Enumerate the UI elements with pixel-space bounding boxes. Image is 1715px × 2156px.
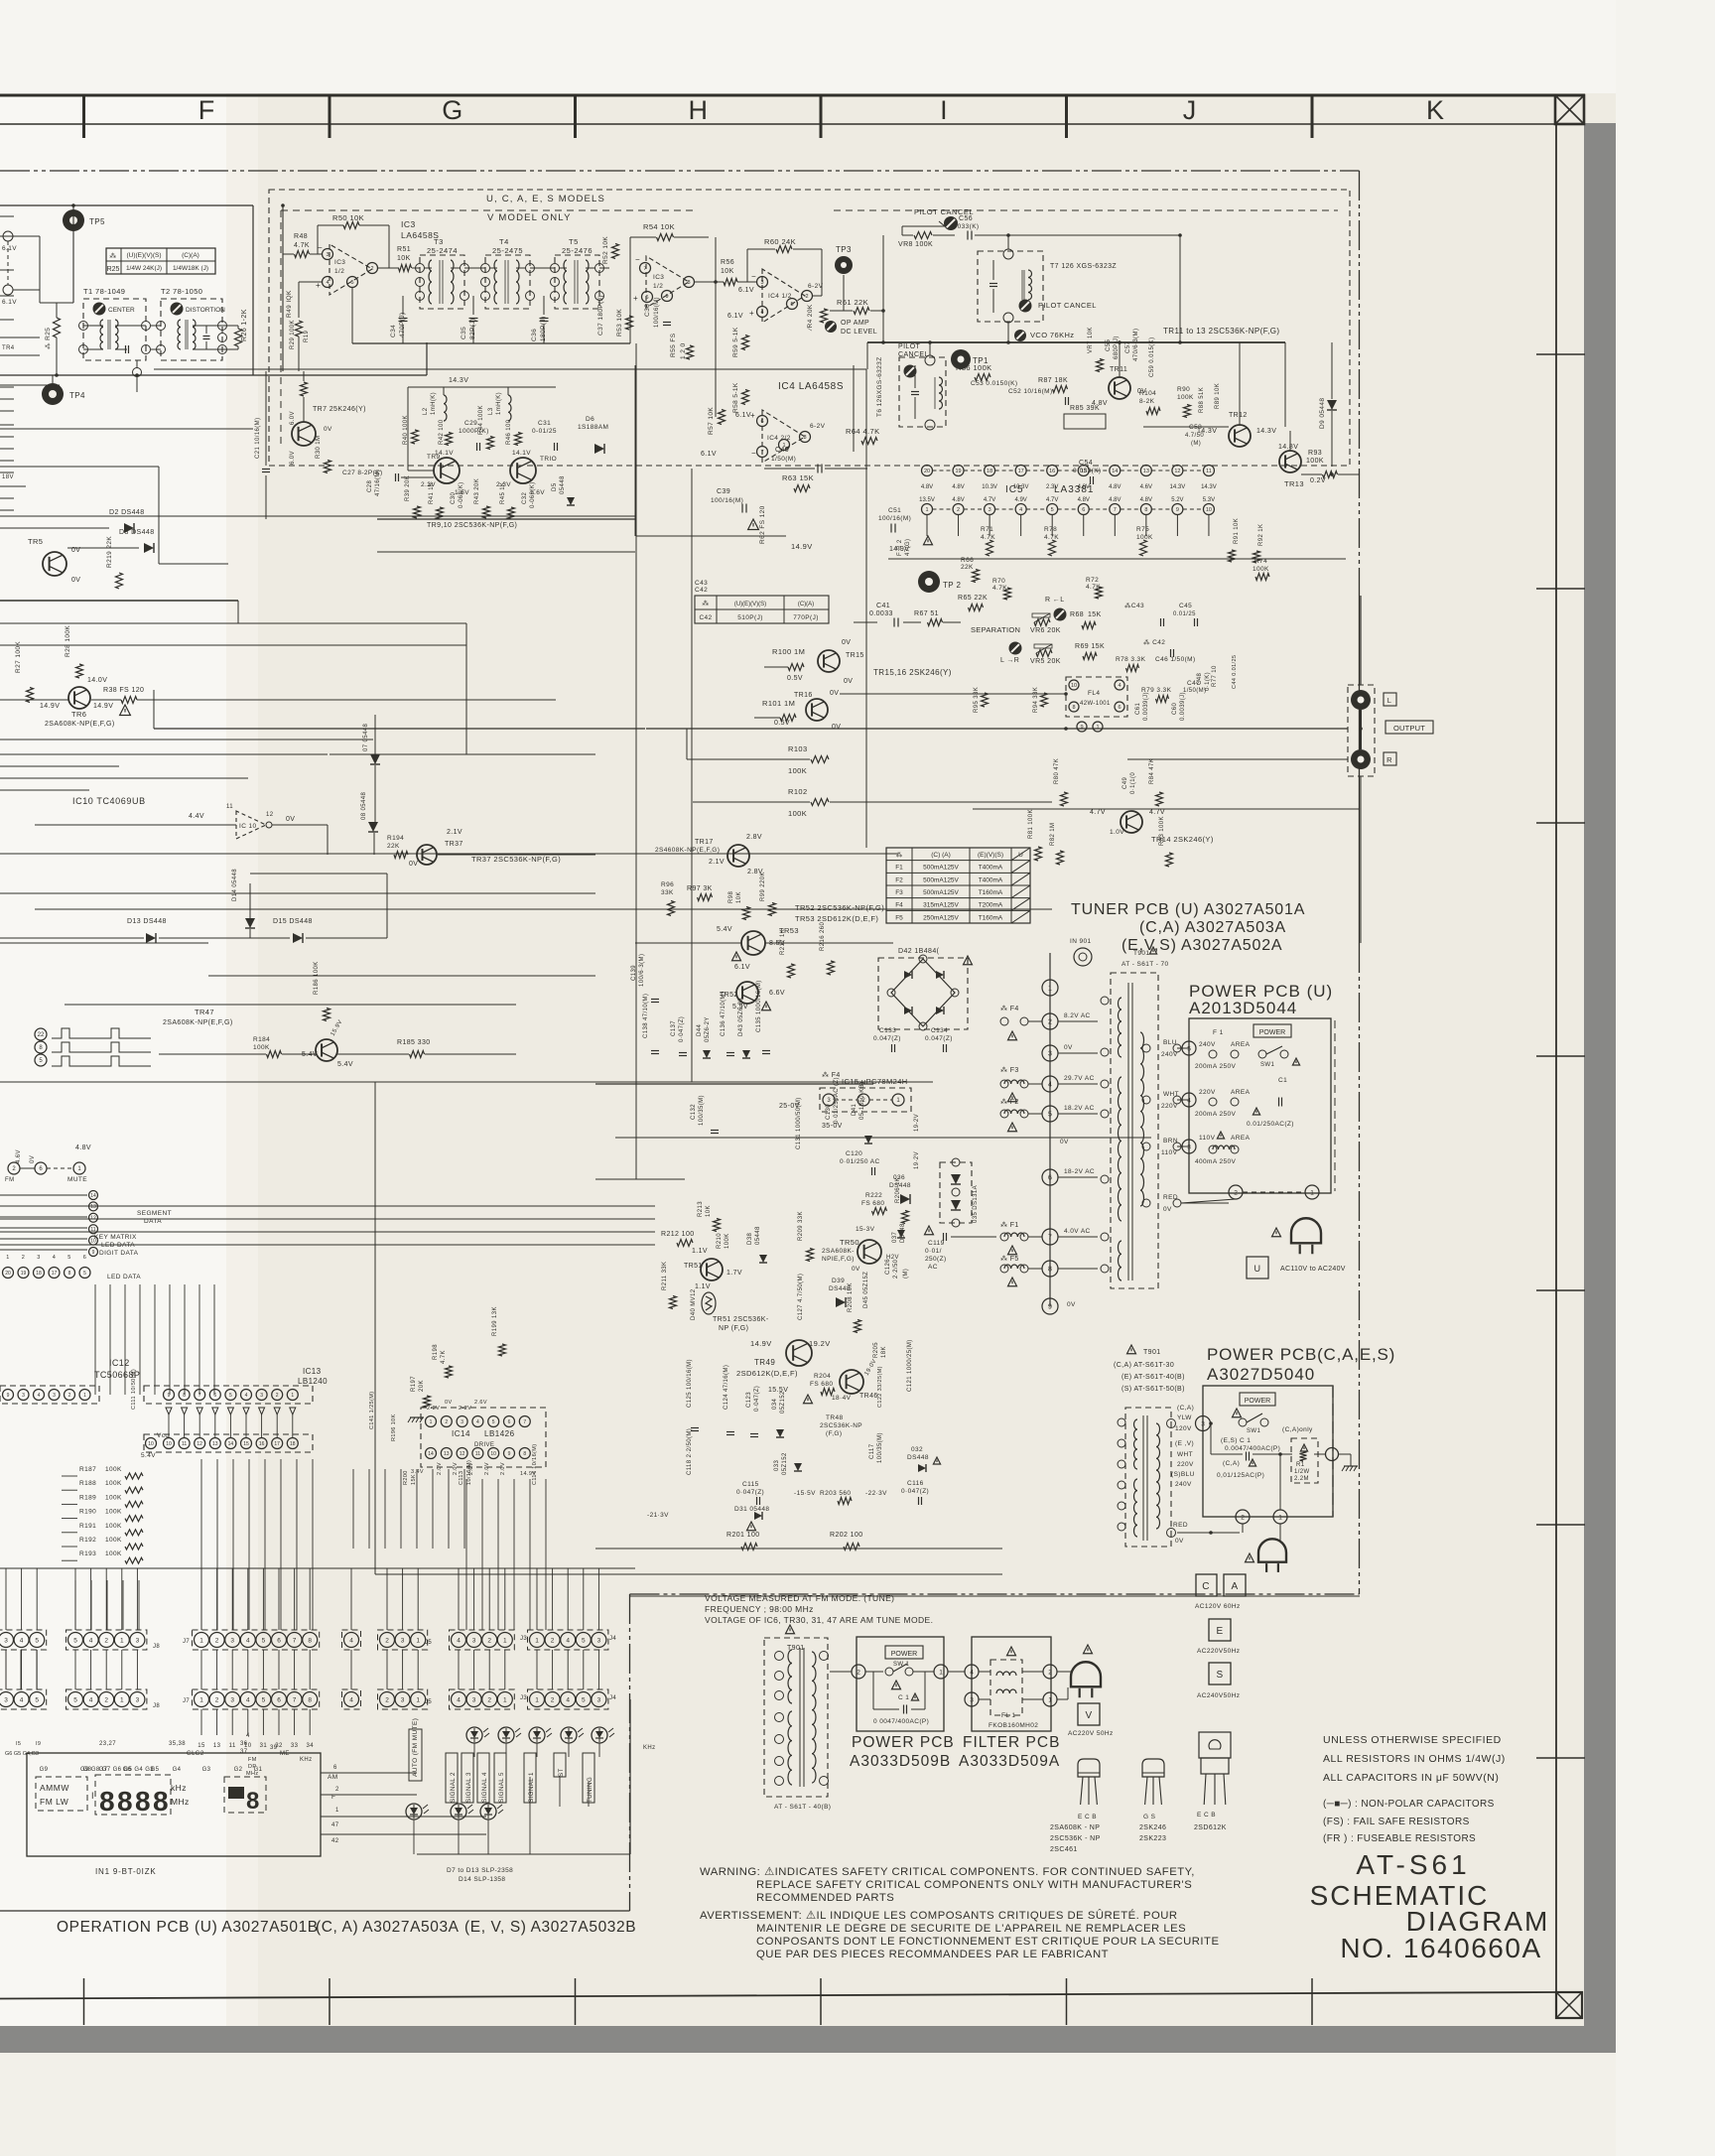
svg-text:T200mA: T200mA: [979, 902, 1003, 909]
svg-text:11: 11: [182, 1441, 187, 1447]
svg-text:DC LEVEL: DC LEVEL: [841, 329, 877, 336]
svg-text:D41: D41: [852, 1104, 857, 1116]
svg-text:240V: 240V: [1175, 1481, 1192, 1488]
svg-text:3: 3: [230, 1637, 234, 1644]
svg-text:VR8 100K: VR8 100K: [898, 241, 933, 248]
svg-text:19: 19: [955, 469, 961, 474]
svg-text:F2: F2: [895, 876, 903, 883]
svg-text:9: 9: [7, 1393, 10, 1399]
svg-text:2SC536K - NP: 2SC536K - NP: [1050, 1835, 1101, 1842]
svg-text:C130: C130: [826, 1104, 832, 1120]
svg-text:19: 19: [21, 1271, 27, 1277]
svg-text:17: 17: [274, 1441, 280, 1447]
svg-text:T5: T5: [569, 237, 579, 246]
svg-text:AC220V 50Hz: AC220V 50Hz: [1068, 1730, 1114, 1737]
svg-text:8: 8: [68, 1271, 71, 1277]
svg-text:(C)(A): (C)(A): [182, 252, 199, 259]
svg-text:(E, V, S) A3027A5032B: (E, V, S) A3027A5032B: [464, 1919, 636, 1936]
svg-text:4: 4: [20, 1637, 24, 1644]
svg-text:1000P(K): 1000P(K): [459, 428, 489, 435]
svg-text:CENTER: CENTER: [108, 307, 135, 314]
svg-text:R66: R66: [961, 557, 974, 564]
svg-text:IC3: IC3: [334, 259, 345, 266]
svg-text:4: 4: [970, 1669, 974, 1676]
svg-text:0V: 0V: [1067, 1301, 1076, 1308]
svg-text:19.2V: 19.2V: [809, 1339, 831, 1348]
svg-text:E C B: E C B: [1197, 1812, 1216, 1819]
svg-text:J5: J5: [425, 1640, 432, 1646]
svg-text:10: 10: [244, 1743, 252, 1749]
svg-text:R202 100: R202 100: [830, 1532, 863, 1539]
svg-text:4.8V: 4.8V: [952, 484, 964, 490]
svg-text:+: +: [749, 309, 754, 318]
svg-text:GLG2: GLG2: [187, 1751, 204, 1757]
svg-text:6-2V: 6-2V: [808, 283, 824, 290]
svg-text:180P(J): 180P(J): [540, 316, 547, 341]
svg-text:IC 10: IC 10: [239, 823, 257, 830]
svg-text:POWER: POWER: [891, 1651, 917, 1658]
svg-text:100K: 100K: [105, 1466, 122, 1473]
svg-text:315mA125V: 315mA125V: [923, 902, 959, 909]
svg-text:G2: G2: [234, 1767, 243, 1773]
svg-text:3: 3: [472, 1696, 476, 1703]
svg-text:14.3V: 14.3V: [1170, 484, 1186, 490]
svg-text:1.0V: 1.0V: [1110, 829, 1124, 836]
svg-text:C56: C56: [959, 215, 973, 222]
svg-text:(E,S) C 1: (E,S) C 1: [1221, 1437, 1251, 1444]
svg-text:R194: R194: [387, 835, 404, 842]
svg-text:C122 33/25(M): C122 33/25(M): [877, 1366, 883, 1408]
svg-text:510P(J): 510P(J): [737, 614, 763, 621]
svg-text:C1: C1: [1278, 1077, 1287, 1084]
svg-text:100K: 100K: [105, 1509, 122, 1516]
svg-text:C31: C31: [538, 420, 551, 427]
svg-text:A3027D5040: A3027D5040: [1207, 1365, 1315, 1384]
svg-text:0·047(Z): 0·047(Z): [901, 1488, 929, 1495]
svg-text:R51: R51: [397, 246, 411, 253]
svg-text:D14 05448: D14 05448: [232, 869, 238, 901]
svg-text:R65 22K: R65 22K: [958, 595, 988, 602]
svg-text:T4: T4: [499, 237, 509, 246]
svg-text:08 05448: 08 05448: [361, 792, 367, 820]
svg-text:1: 1: [120, 1637, 124, 1644]
svg-text:R204: R204: [814, 1373, 831, 1380]
svg-text:100K: 100K: [253, 1044, 270, 1051]
svg-text:C39: C39: [717, 488, 730, 495]
svg-text:R62 FS 120: R62 FS 120: [759, 505, 766, 544]
svg-text:100/6·3(M): 100/6·3(M): [639, 954, 645, 987]
svg-text:F3: F3: [895, 889, 903, 896]
svg-text:9: 9: [92, 1250, 95, 1256]
svg-text:C: C: [1202, 1581, 1210, 1592]
svg-text:TR15,16 2SK246(Y): TR15,16 2SK246(Y): [873, 668, 952, 677]
svg-text:1: 1: [416, 1637, 420, 1644]
svg-text:U, C, A, E, S MODELS: U, C, A, E, S MODELS: [486, 194, 605, 204]
svg-text:2-2V: 2-2V: [459, 1406, 471, 1412]
svg-text:TR7 25K246(Y): TR7 25K246(Y): [313, 406, 366, 413]
svg-text:6: 6: [83, 1255, 86, 1261]
svg-text:10K: 10K: [721, 268, 734, 275]
svg-text:1 2 0: 1 2 0: [680, 343, 687, 359]
svg-text:4.8V: 4.8V: [75, 1145, 91, 1151]
svg-text:17: 17: [1018, 469, 1024, 474]
svg-text:NP (F,G): NP (F,G): [719, 1325, 748, 1332]
svg-text:R25: R25: [107, 266, 120, 273]
svg-text:0V: 0V: [71, 577, 80, 584]
svg-text:C137: C137: [671, 1020, 677, 1036]
svg-text:1: 1: [503, 1696, 507, 1703]
svg-text:4.9V: 4.9V: [1014, 497, 1026, 503]
svg-text:TR4: TR4: [2, 345, 15, 351]
svg-text:R87 18K: R87 18K: [1038, 377, 1068, 384]
svg-text:14.9V: 14.9V: [791, 542, 813, 551]
svg-text:120V: 120V: [1175, 1425, 1192, 1432]
svg-text:0.2V: 0.2V: [1310, 477, 1326, 484]
svg-text:-22·3V: -22·3V: [865, 1490, 887, 1497]
svg-text:15: 15: [243, 1441, 249, 1447]
svg-text:100K: 100K: [1177, 394, 1194, 401]
svg-text:R43 20K: R43 20K: [474, 478, 480, 504]
svg-text:8: 8: [183, 1393, 186, 1399]
svg-text:13: 13: [212, 1441, 218, 1447]
svg-text:3: 3: [230, 1696, 234, 1703]
svg-text:2.0V: 2.0V: [500, 1462, 506, 1475]
svg-text:100/35(M): 100/35(M): [699, 1095, 705, 1126]
svg-text:G: G: [442, 95, 462, 125]
svg-text:RED: RED: [1173, 1522, 1188, 1529]
svg-text:6.1V: 6.1V: [2, 299, 17, 306]
svg-text:3: 3: [597, 1637, 601, 1644]
svg-text:12: 12: [1174, 469, 1180, 474]
svg-text:D39: D39: [832, 1278, 845, 1284]
svg-text:R59 5-1K: R59 5-1K: [732, 327, 739, 357]
svg-text:9: 9: [1048, 1304, 1052, 1311]
svg-text:FL4: FL4: [1088, 690, 1100, 697]
svg-text:G6 G5 G4,G3: G6 G5 G4,G3: [5, 1751, 39, 1757]
svg-text:10.3V: 10.3V: [1013, 484, 1029, 490]
svg-text:05Z152: 05Z152: [780, 1391, 786, 1414]
svg-text:R57 10K: R57 10K: [708, 407, 715, 435]
svg-text:WHT: WHT: [1177, 1451, 1193, 1458]
svg-text:100/35(M): 100/35(M): [877, 1432, 883, 1463]
svg-text:4.8V: 4.8V: [921, 484, 933, 490]
svg-text:6: 6: [508, 1419, 511, 1425]
svg-text:R38 FS 120: R38 FS 120: [103, 687, 144, 694]
svg-text:R30 1M: R30 1M: [316, 436, 322, 459]
svg-text:SIGNAL 4: SIGNAL 4: [481, 1772, 488, 1803]
svg-text:C126: C126: [885, 1259, 891, 1275]
svg-text:C59 0.015(K): C59 0.015(K): [1149, 337, 1155, 378]
svg-text:1: 1: [120, 1696, 124, 1703]
svg-text:VR7 10K: VR7 10K: [1088, 327, 1094, 353]
svg-text:14.9V: 14.9V: [750, 1339, 772, 1348]
svg-text:1/2W: 1/2W: [1294, 1469, 1310, 1475]
svg-text:R96: R96: [661, 881, 674, 888]
svg-text:C38: C38: [644, 304, 651, 317]
svg-text:14: 14: [90, 1193, 96, 1199]
svg-text:T2 78-1050: T2 78-1050: [161, 287, 202, 296]
svg-text:2SD612K(D,E,F): 2SD612K(D,E,F): [736, 1369, 798, 1378]
svg-text:CONPOSANTS DONT LE FONCTIONNEM: CONPOSANTS DONT LE FONCTIONNEMENT EST CR…: [756, 1936, 1220, 1948]
svg-text:25-2475: 25-2475: [492, 246, 523, 255]
svg-text:F: F: [198, 95, 215, 125]
svg-text:8: 8: [1144, 507, 1147, 513]
svg-text:R29 100K: R29 100K: [290, 320, 296, 349]
svg-text:18: 18: [290, 1441, 296, 1447]
svg-text:1: 1: [1278, 1514, 1282, 1521]
svg-text:R95 33K: R95 33K: [974, 687, 980, 713]
svg-text:8: 8: [687, 280, 690, 286]
svg-text:E C B: E C B: [1078, 1814, 1097, 1820]
svg-text:⁂: ⁂: [702, 600, 709, 607]
svg-text:NPIE,F,G): NPIE,F,G): [822, 1256, 855, 1263]
svg-text:C114 10/16(M): C114 10/16(M): [532, 1444, 538, 1485]
svg-text:15-3V: 15-3V: [856, 1226, 875, 1233]
svg-text:05Z152: 05Z152: [782, 1452, 788, 1475]
svg-text:2: 2: [22, 1255, 25, 1261]
svg-text:5.4V: 5.4V: [337, 1061, 353, 1068]
svg-text:0·1(1(0: 0·1(1(0: [1130, 772, 1136, 794]
svg-text:2.8V: 2.8V: [746, 834, 762, 841]
svg-text:R41 1K: R41 1K: [429, 482, 435, 504]
svg-text:0V: 0V: [1064, 1044, 1073, 1051]
svg-text:D42 1B484(: D42 1B484(: [898, 948, 940, 955]
svg-text:2·2/50: 2·2/50: [893, 1259, 899, 1279]
svg-text:G3: G3: [202, 1767, 211, 1773]
svg-text:4: 4: [476, 1419, 479, 1425]
svg-text:2: 2: [551, 1696, 555, 1703]
svg-text:R190: R190: [79, 1509, 96, 1516]
svg-text:200mA 250V: 200mA 250V: [1195, 1111, 1236, 1118]
svg-text:R198: R198: [433, 1344, 439, 1360]
svg-text:R72: R72: [1086, 577, 1099, 584]
svg-text:2SA608K-NP(E,F,G): 2SA608K-NP(E,F,G): [163, 1019, 233, 1026]
svg-text:R84 47K: R84 47K: [1149, 758, 1155, 784]
svg-text:C42: C42: [695, 587, 708, 594]
svg-text:R70: R70: [992, 578, 1005, 585]
svg-text:1.1V: 1.1V: [692, 1248, 708, 1255]
svg-text:5: 5: [582, 1696, 586, 1703]
svg-text:4: 4: [566, 1637, 570, 1644]
svg-text:18·4V: 18·4V: [832, 1395, 852, 1402]
svg-text:2SA608K-NP(E,F,G): 2SA608K-NP(E,F,G): [45, 721, 115, 728]
svg-text:−: −: [318, 243, 323, 252]
svg-text:(E ,V): (E ,V): [1175, 1440, 1194, 1447]
svg-text:8: 8: [153, 1786, 169, 1817]
svg-text:G S: G S: [1143, 1814, 1156, 1820]
svg-text:R1: R1: [1296, 1462, 1305, 1468]
svg-text:5: 5: [35, 1696, 39, 1703]
svg-text:22K: 22K: [961, 564, 974, 571]
svg-text:2SA608K - NP: 2SA608K - NP: [1050, 1824, 1100, 1831]
svg-text:TP3: TP3: [836, 245, 852, 254]
svg-text:3: 3: [401, 1637, 405, 1644]
svg-text:6: 6: [277, 1696, 281, 1703]
svg-text:0V: 0V: [852, 1266, 860, 1273]
svg-text:5: 5: [582, 1637, 586, 1644]
svg-text:0.0047/400AC(P): 0.0047/400AC(P): [1225, 1445, 1280, 1452]
svg-text:4: 4: [53, 1255, 56, 1261]
svg-text:4: 4: [566, 1696, 570, 1703]
svg-text:10: 10: [148, 1441, 154, 1447]
svg-text:0V: 0V: [286, 816, 295, 823]
svg-text:AREA: AREA: [1231, 1041, 1251, 1048]
svg-text:D40 MV12: D40 MV12: [691, 1288, 697, 1320]
svg-text:1: 1: [430, 1419, 433, 1425]
svg-text:(C,A): (C,A): [1223, 1460, 1240, 1467]
svg-text:0-068(K): 0-068(K): [530, 481, 536, 508]
svg-text:S: S: [1216, 1670, 1223, 1681]
svg-text:R83 100K: R83 100K: [1159, 816, 1165, 846]
svg-text:4.7K: 4.7K: [981, 534, 995, 541]
svg-text:D14 SLP-1358: D14 SLP-1358: [459, 1876, 505, 1883]
svg-text:10.3V: 10.3V: [982, 484, 997, 490]
svg-text:D2 DS448: D2 DS448: [109, 509, 145, 516]
svg-text:47/16(M): 47/16(M): [375, 470, 381, 496]
svg-text:R197: R197: [411, 1376, 417, 1392]
svg-text:⁂ C42: ⁂ C42: [1143, 638, 1165, 646]
svg-text:R45 1K: R45 1K: [500, 482, 506, 504]
svg-text:3: 3: [260, 1393, 263, 1399]
svg-text:35,38: 35,38: [169, 1741, 186, 1747]
svg-text:VOLTAGE OF IC6, TR30, 31, 47 A: VOLTAGE OF IC6, TR30, 31, 47 ARE AM TUNE…: [705, 1615, 933, 1625]
svg-text:(S) AT-S61T-50(B): (S) AT-S61T-50(B): [1121, 1386, 1185, 1393]
svg-text:(F,G): (F,G): [826, 1430, 842, 1437]
svg-text:R189: R189: [79, 1494, 96, 1501]
svg-text:1: 1: [291, 1393, 294, 1399]
svg-text:2S4608K-NP(E,F,G): 2S4608K-NP(E,F,G): [655, 847, 720, 854]
svg-text:C127 4.7/50(M): C127 4.7/50(M): [798, 1274, 804, 1320]
svg-text:A3033D509B: A3033D509B: [850, 1753, 951, 1770]
svg-text:0·01/250AC (Z): 0·01/250AC (Z): [834, 1077, 840, 1124]
svg-text:FM: FM: [248, 1757, 257, 1763]
svg-text:TR48: TR48: [826, 1415, 844, 1421]
svg-text:IC14: IC14: [452, 1429, 470, 1438]
svg-text:1/50(M): 1/50(M): [1183, 688, 1206, 694]
svg-text:C44 0.01/25: C44 0.01/25: [1232, 655, 1238, 689]
svg-text:C111 10/50(M): C111 10/50(M): [131, 1369, 137, 1410]
svg-text:L: L: [1387, 696, 1392, 705]
svg-text:4: 4: [1048, 1082, 1052, 1089]
svg-text:3: 3: [461, 1419, 463, 1425]
svg-text:29.7V AC: 29.7V AC: [1064, 1075, 1095, 1082]
svg-text:D43 05Z6.8X: D43 05Z6.8X: [738, 997, 744, 1036]
svg-text:100/16(M): 100/16(M): [878, 515, 911, 522]
svg-text:14.9V: 14.9V: [40, 703, 60, 710]
svg-text:TP4: TP4: [69, 391, 85, 400]
svg-text:4: 4: [1019, 507, 1022, 513]
svg-text:100K: 100K: [105, 1480, 122, 1487]
svg-text:⁂ F4: ⁂ F4: [1000, 1005, 1019, 1012]
svg-text:1/2: 1/2: [334, 268, 344, 275]
svg-text:19·2V: 19·2V: [914, 1151, 920, 1169]
svg-text:K: K: [1426, 95, 1444, 125]
svg-text:POWER: POWER: [1245, 1398, 1270, 1405]
svg-text:7: 7: [198, 1393, 201, 1399]
svg-text:SW1: SW1: [1247, 1428, 1260, 1434]
svg-text:0V: 0V: [830, 690, 839, 697]
svg-text:⁂ F5: ⁂ F5: [1000, 1255, 1019, 1263]
svg-text:DS448: DS448: [907, 1454, 929, 1461]
svg-text:3: 3: [22, 1393, 25, 1399]
svg-text:C49: C49: [1122, 777, 1128, 789]
svg-text:4.8V: 4.8V: [1140, 497, 1152, 503]
svg-text:0.047(Z): 0.047(Z): [925, 1035, 953, 1042]
svg-text:400mA 250V: 400mA 250V: [1195, 1158, 1236, 1165]
svg-text:J3: J3: [520, 1695, 527, 1701]
svg-text:PILOT CANCEL: PILOT CANCEL: [1038, 301, 1097, 310]
svg-text:18V: 18V: [2, 474, 14, 480]
svg-text:4: 4: [457, 1696, 461, 1703]
svg-text:R101 1M: R101 1M: [762, 699, 795, 708]
svg-text:15: 15: [198, 1743, 205, 1749]
svg-text:3: 3: [326, 252, 329, 258]
svg-text:A3033D509A: A3033D509A: [959, 1753, 1060, 1770]
svg-text:FM LW: FM LW: [40, 1797, 68, 1807]
svg-text:10/16(M): 10/16(M): [466, 1460, 472, 1485]
svg-text:AM: AM: [328, 1774, 338, 1781]
svg-text:TR50: TR50: [840, 1238, 859, 1247]
svg-text:J5: J5: [425, 1699, 432, 1705]
svg-text:33: 33: [291, 1743, 299, 1749]
svg-text:2: 2: [857, 1669, 860, 1676]
svg-text:I: I: [91, 1791, 94, 1801]
svg-text:100K: 100K: [788, 809, 807, 818]
svg-text:R28 100K: R28 100K: [65, 625, 71, 657]
svg-text:4: 4: [760, 310, 763, 316]
svg-text:6.1V: 6.1V: [738, 287, 754, 294]
svg-text:R196 10K: R196 10K: [391, 1414, 397, 1441]
svg-text:7: 7: [523, 1419, 526, 1425]
svg-text:1/50(M): 1/50(M): [771, 456, 796, 463]
svg-text:R89 10K: R89 10K: [1215, 383, 1221, 409]
svg-text:C116: C116: [907, 1480, 924, 1487]
svg-text:T160mA: T160mA: [979, 889, 1003, 896]
svg-text:R78: R78: [1044, 526, 1057, 533]
svg-text:D3 DS448: D3 DS448: [119, 529, 155, 536]
svg-text:7: 7: [293, 1696, 297, 1703]
svg-text:(U)(E)(V)(S): (U)(E)(V)(S): [734, 602, 766, 607]
svg-text:07 05448: 07 05448: [363, 724, 369, 751]
svg-text:20: 20: [5, 1271, 11, 1277]
svg-text:C123: C123: [746, 1392, 752, 1408]
svg-text:AT-S61: AT-S61: [1356, 1849, 1470, 1880]
svg-text:H: H: [689, 95, 709, 125]
svg-text:12: 12: [266, 812, 274, 818]
svg-text:2: 2: [805, 294, 808, 300]
svg-text:42: 42: [331, 1838, 339, 1844]
svg-text:R40 100K: R40 100K: [403, 415, 409, 445]
svg-text:R199 13K: R199 13K: [492, 1306, 498, 1336]
svg-text:05Z6-2Y: 05Z6-2Y: [705, 1016, 711, 1042]
svg-text:-15·5V: -15·5V: [794, 1490, 816, 1497]
svg-text:12: 12: [460, 1451, 465, 1457]
svg-text:C41: C41: [876, 603, 890, 609]
svg-text:4: 4: [326, 280, 329, 286]
svg-text:QUE PAR DES PIECES RECOMMANDEE: QUE PAR DES PIECES RECOMMANDEES PAR LE F…: [756, 1949, 1109, 1960]
svg-text:C55: C55: [1106, 339, 1112, 351]
svg-text:MHz: MHz: [171, 1797, 190, 1807]
svg-text:(C,A): (C,A): [1177, 1405, 1194, 1412]
svg-text:SIGNAL 3: SIGNAL 3: [465, 1772, 472, 1803]
svg-text:−: −: [751, 272, 756, 281]
svg-text:IN 901: IN 901: [1070, 938, 1092, 945]
svg-text:AC: AC: [928, 1264, 938, 1271]
svg-text:15.5V: 15.5V: [768, 1387, 788, 1394]
svg-text:37: 37: [240, 1749, 248, 1755]
svg-text:5: 5: [83, 1271, 86, 1277]
svg-text:9: 9: [665, 294, 668, 300]
